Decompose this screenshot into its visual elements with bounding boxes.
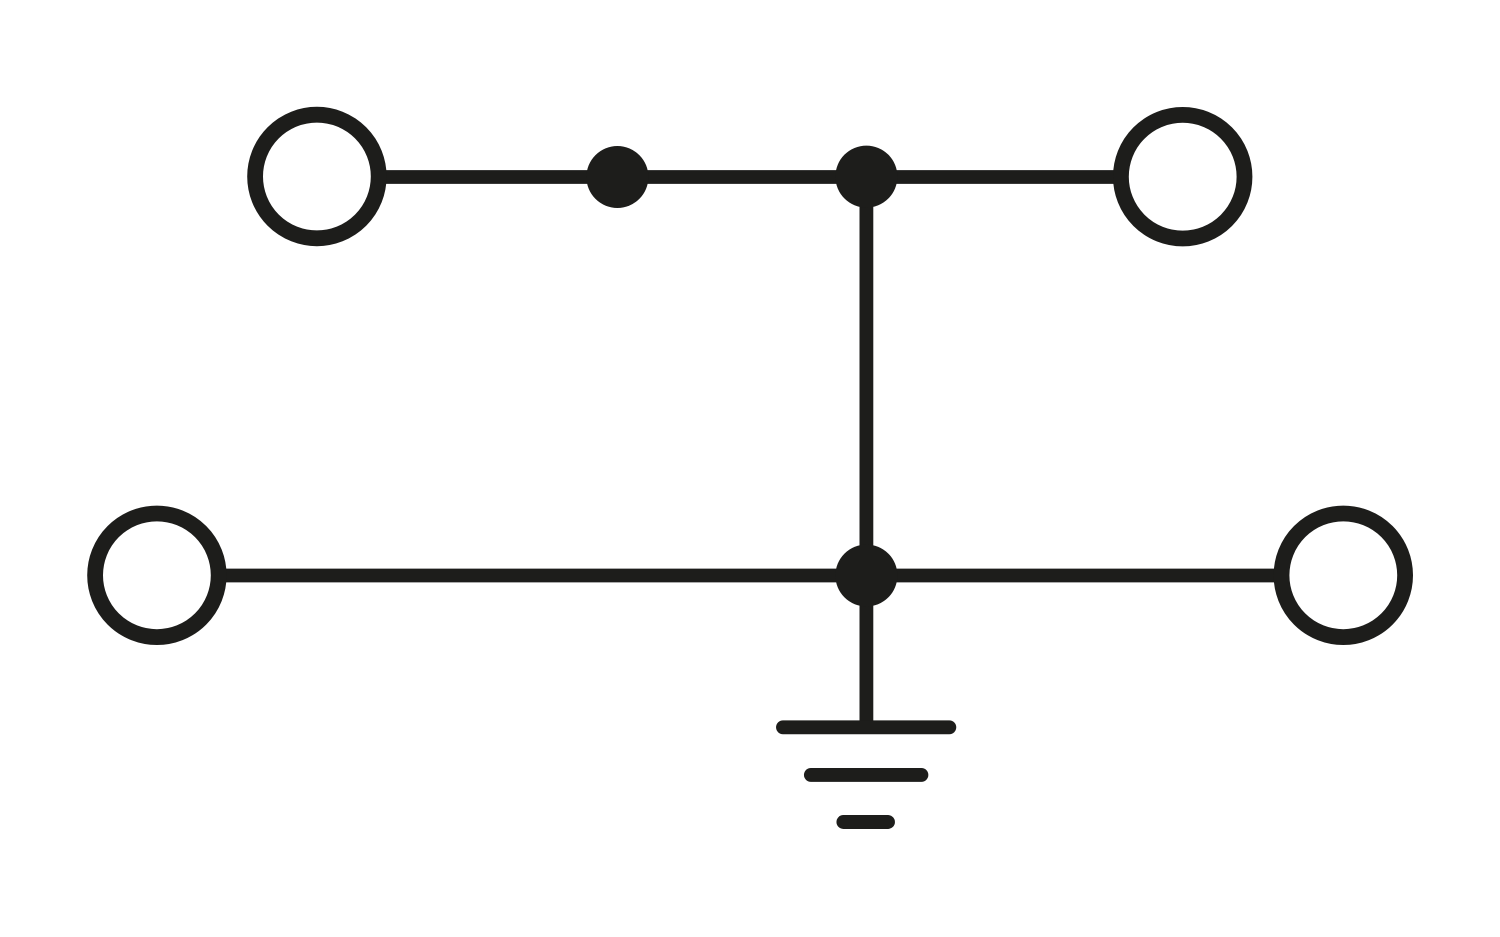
ground bar 1 (top, widest) [783,720,949,734]
ground: PE earth symbol [783,727,949,822]
ground bar 2 (middle) [811,768,922,782]
terminal 4: bottom-right clamp point [1282,514,1406,638]
wire: bottom rail from terminal 3 to terminal 4 [224,569,1276,583]
wire: vertical link from node A to node B [860,177,874,576]
node B: junction of bottom rail, vertical link and ground lead [835,545,897,607]
ground bar 3 (bottom, shortest) [843,815,888,829]
bridge contact dot on top rail [586,146,648,208]
terminal 1: top-left clamp point [255,115,379,239]
wire: top rail from terminal 1 to terminal 2 [383,170,1116,184]
node A: junction of top rail and vertical link [835,146,897,208]
wire: ground lead from node B down to earth symbol [860,576,874,731]
terminal 3: bottom-left clamp point [95,514,219,638]
terminal 2: top-right clamp point [1121,115,1245,239]
